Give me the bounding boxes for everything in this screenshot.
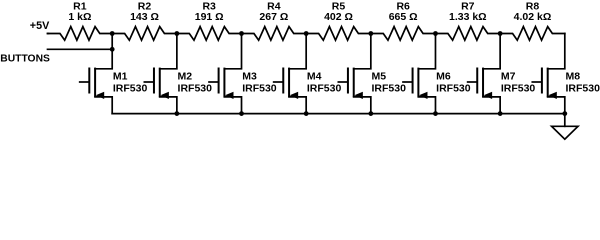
resistor R7 (1.33 kΩ) xyxy=(435,1,500,41)
svg-text:191 Ω: 191 Ω xyxy=(195,11,224,23)
transistor M6 (IRF530) xyxy=(403,34,471,114)
junction dot M4 source on ground rail xyxy=(304,111,309,116)
svg-text:BUTTONS: BUTTONS xyxy=(0,53,50,64)
transistor M1 (IRF530) xyxy=(80,34,148,114)
node 6 junction dot (top rail) xyxy=(433,31,438,36)
svg-text:M2: M2 xyxy=(178,71,193,83)
resistor R6 (665 Ω) xyxy=(371,1,436,41)
svg-text:IRF530: IRF530 xyxy=(113,83,148,95)
svg-text:IRF530: IRF530 xyxy=(436,83,471,95)
junction dot M2 source on ground rail xyxy=(174,111,179,116)
svg-text:143 Ω: 143 Ω xyxy=(130,11,159,23)
transistor M8 (IRF530) xyxy=(532,34,600,114)
junction dot M3 source on ground rail xyxy=(239,111,244,116)
svg-text:IRF530: IRF530 xyxy=(501,83,536,95)
node BUTTONS junction dot xyxy=(110,47,115,52)
transistor M5 (IRF530) xyxy=(338,34,406,114)
node 1 junction dot (top rail) xyxy=(110,31,115,36)
svg-text:402 Ω: 402 Ω xyxy=(324,11,353,23)
wire +5V to R1 xyxy=(48,33,49,35)
svg-text:IRF530: IRF530 xyxy=(242,83,277,95)
svg-text:M3: M3 xyxy=(242,71,257,83)
svg-text:M6: M6 xyxy=(436,71,451,83)
svg-text:267 Ω: 267 Ω xyxy=(259,11,288,23)
svg-text:M5: M5 xyxy=(372,71,387,83)
svg-text:M8: M8 xyxy=(566,71,581,83)
wire BUTTONS net xyxy=(48,48,113,50)
junction dot M5 source on ground rail xyxy=(368,111,373,116)
resistor R5 (402 Ω) xyxy=(306,1,371,41)
svg-text:M4: M4 xyxy=(307,71,322,83)
svg-text:4.02 kΩ: 4.02 kΩ xyxy=(514,11,552,23)
resistor R1 (1 kΩ) xyxy=(48,1,113,41)
resistor R8 (4.02 kΩ) xyxy=(500,1,565,41)
ground xyxy=(552,114,578,140)
svg-text:+5V: +5V xyxy=(30,20,50,32)
svg-text:1 kΩ: 1 kΩ xyxy=(68,11,91,23)
svg-text:IRF530: IRF530 xyxy=(307,83,342,95)
svg-text:IRF530: IRF530 xyxy=(178,83,213,95)
svg-text:M7: M7 xyxy=(501,71,516,83)
node 4 junction dot (top rail) xyxy=(304,31,309,36)
node 5 junction dot (top rail) xyxy=(368,31,373,36)
resistor R2 (143 Ω) xyxy=(112,1,177,41)
transistor M7 (IRF530) xyxy=(468,34,536,114)
svg-text:IRF530: IRF530 xyxy=(372,83,407,95)
junction dot M7 source on ground rail xyxy=(498,111,503,116)
node 2 junction dot (top rail) xyxy=(174,31,179,36)
junction dot M6 source on ground rail xyxy=(433,111,438,116)
node 7 junction dot (top rail) xyxy=(498,31,503,36)
resistor R3 (191 Ω) xyxy=(177,1,242,41)
resistor R4 (267 Ω) xyxy=(242,1,307,41)
wire ground rail xyxy=(112,113,565,115)
transistor M4 (IRF530) xyxy=(274,34,342,114)
svg-text:IRF530: IRF530 xyxy=(566,83,600,95)
svg-text:M1: M1 xyxy=(113,71,128,83)
svg-text:1.33 kΩ: 1.33 kΩ xyxy=(449,11,487,23)
transistor M3 (IRF530) xyxy=(209,34,277,114)
node 3 junction dot (top rail) xyxy=(239,31,244,36)
svg-text:665 Ω: 665 Ω xyxy=(389,11,418,23)
junction dot M8 source on ground rail xyxy=(562,111,567,116)
transistor M2 (IRF530) xyxy=(144,34,212,114)
